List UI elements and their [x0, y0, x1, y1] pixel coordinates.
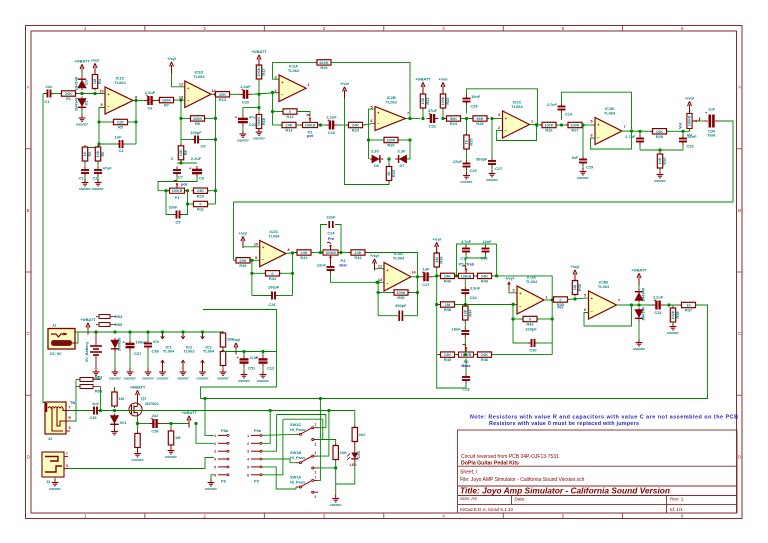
wire IC2C unity feedback: [496, 125, 536, 141]
wire to R8: [180, 140, 182, 145]
junction source node: [136, 422, 139, 425]
wire R29 right: [666, 130, 690, 132]
power +/syl at IC2D: [370, 253, 379, 271]
svg-text:TL064: TL064: [203, 349, 215, 354]
power +9/BATT at R17: [251, 49, 267, 67]
svg-text:47uF: 47uF: [428, 108, 438, 113]
svg-text:C31: C31: [654, 310, 662, 315]
svg-text:10: 10: [99, 90, 103, 94]
connector P8: [214, 428, 229, 483]
junction bottom mid: [464, 353, 467, 356]
wiper of P4 to C25m: [329, 255, 332, 263]
svg-text:2: 2: [498, 126, 500, 130]
op-amp IC3A body: [512, 275, 547, 315]
junction IC2D out: [416, 275, 419, 278]
wire R45-P6: [454, 354, 459, 356]
wire SW1A throw1 to bus: [318, 399, 320, 481]
power +9/BATT at D8: [631, 268, 647, 286]
wire R56 gnd: [137, 449, 139, 452]
svg-text:GNDREF: GNDREF: [124, 376, 136, 380]
wire R23 to pin6: [362, 123, 375, 125]
capacitor C10: [326, 115, 338, 136]
svg-text:GNDREF: GNDREF: [49, 487, 61, 491]
svg-text:+/vol: +/vol: [439, 77, 448, 82]
svg-text:C8: C8: [199, 176, 205, 181]
wire output jack gnd: [54, 477, 56, 481]
svg-text:R34: R34: [354, 255, 362, 260]
ground below R48: [667, 323, 679, 335]
junction IC3C pin9: [250, 259, 253, 262]
svg-text:C12: C12: [267, 366, 275, 371]
svg-text:GNDREF: GNDREF: [165, 455, 177, 459]
wire C26 feedback top: [467, 89, 538, 127]
wire C50 right: [404, 315, 418, 317]
resistor R45: [439, 352, 457, 362]
svg-text:100KB: 100KB: [305, 124, 316, 128]
wire R26-R27: [556, 124, 569, 126]
wire R48 gnd: [672, 322, 674, 326]
op-amp IC3C body: [254, 229, 290, 267]
junction R33 right: [291, 272, 294, 275]
ground below C12: [257, 371, 269, 383]
wire feedback to IC3A out: [497, 276, 553, 301]
svg-text:TL064: TL064: [511, 104, 523, 109]
svg-text:2: 2: [315, 471, 317, 475]
svg-text:KiCad E.D.A. kicad 5.1.10: KiCad E.D.A. kicad 5.1.10: [460, 507, 514, 512]
svg-text:R27: R27: [571, 128, 578, 133]
svg-text:C26: C26: [268, 302, 276, 307]
wire C9 right: [201, 139, 216, 141]
junction C27 node: [490, 117, 493, 120]
svg-text:C26: C26: [471, 104, 479, 109]
wire R40-P5: [454, 275, 459, 277]
junction R33 left: [250, 272, 253, 275]
junction R4 node: [93, 92, 96, 95]
resistor R4: [92, 73, 102, 91]
svg-text:P1: P1: [175, 195, 181, 200]
junction R9 right: [214, 117, 217, 120]
junction R20 left: [367, 138, 370, 141]
diode D12: [110, 414, 118, 428]
junction C19 node: [560, 123, 563, 126]
svg-text:2.2uF: 2.2uF: [240, 84, 251, 89]
wire IC3C out: [286, 253, 295, 254]
svg-text:GNDREF: GNDREF: [177, 376, 189, 380]
svg-text:TL062: TL062: [183, 349, 195, 354]
wire R13-P2: [296, 124, 302, 126]
wire C26f left: [252, 295, 270, 297]
wire IC3C fb right vertical: [292, 253, 294, 296]
svg-text:+/syl: +/syl: [167, 56, 176, 61]
wire to C51: [243, 352, 245, 357]
wire R22 down: [442, 110, 444, 119]
svg-text:GNDREF: GNDREF: [131, 458, 143, 462]
power +9/BATT at C36: [181, 410, 197, 428]
wire +/syl arrow stub: [235, 349, 237, 352]
wire R25v-C25: [466, 151, 468, 161]
wire IC1D out: [211, 93, 216, 95]
svg-text:pot: pot: [307, 134, 314, 138]
capacitor C25: [453, 159, 471, 170]
svg-text:2: 2: [203, 514, 206, 519]
junction IC3A out: [551, 298, 554, 301]
ground below D12: [111, 428, 118, 435]
svg-text:GNDREF: GNDREF: [156, 376, 168, 380]
capacitor C8: [189, 166, 202, 178]
wire mid rail to pin2: [454, 304, 517, 306]
wire pin12 to +/syl: [172, 71, 185, 87]
junction C12: [261, 350, 264, 353]
svg-text:Dist: Dist: [339, 264, 347, 268]
resistor R2: [82, 145, 92, 163]
wire nest2 top: [277, 415, 326, 428]
wire R9 left: [181, 117, 189, 119]
svg-text:Date:: Date:: [515, 497, 526, 502]
svg-text:5: 5: [562, 514, 565, 519]
ground below C28b: [577, 168, 589, 180]
svg-text:Pre: Pre: [328, 237, 334, 241]
wire to C27: [491, 119, 493, 159]
svg-text:R18: R18: [261, 117, 266, 125]
wire C36 to arrow: [161, 422, 189, 424]
svg-text:R24: R24: [450, 121, 458, 126]
wire IC2D fb right vertical: [417, 277, 419, 316]
junction R36 bottom: [573, 297, 576, 300]
svg-text:9V_Battery: 9V_Battery: [84, 341, 89, 362]
svg-text:R19: R19: [320, 65, 328, 70]
wire IC2B out: [406, 118, 421, 120]
switch SW1C: [290, 422, 318, 447]
wire jack to C39: [70, 410, 91, 412]
svg-text:9: 9: [100, 103, 102, 107]
diode D2: [73, 97, 88, 112]
resistor R12: [214, 92, 232, 102]
junction mid rail: [464, 303, 467, 306]
junction nest sw1b: [327, 409, 330, 412]
svg-text:+9/BATT: +9/BATT: [251, 49, 267, 54]
wire P5 to C34: [464, 279, 466, 287]
junction C38: [146, 330, 149, 333]
junction R11 left: [186, 202, 189, 205]
resistor R23: [347, 122, 365, 132]
wire pin10 to +/syl: [243, 242, 260, 247]
ground below IC1 power: [156, 369, 168, 381]
wire R10 right: [207, 190, 216, 192]
svg-text:2.7nF: 2.7nF: [625, 134, 636, 139]
svg-text:TL064: TL064: [163, 349, 175, 354]
capacitor C37: [123, 339, 148, 351]
svg-text:GNDREF: GNDREF: [205, 487, 217, 491]
wire R1 to IC1C: [77, 93, 105, 95]
wire +/syl to pin3: [509, 291, 517, 293]
potentiometer P3: [687, 111, 700, 131]
svg-text:R40: R40: [444, 279, 451, 284]
capacitor C9: [192, 136, 202, 144]
svg-text:R15: R15: [391, 169, 396, 177]
resistor R19: [315, 60, 333, 70]
wire C6-R7: [156, 100, 160, 102]
junction C9 right: [214, 138, 217, 141]
resistor R17: [256, 63, 266, 81]
resistor R51: [220, 350, 225, 368]
svg-text:R25: R25: [469, 138, 474, 146]
junction R30v top: [658, 148, 661, 151]
svg-text:4: 4: [442, 26, 445, 31]
junction R6 top: [96, 146, 99, 149]
wire SW1B common to P9 pin4: [262, 459, 296, 463]
wire C12 gnd: [262, 367, 264, 374]
resistor R33: [264, 271, 282, 281]
svg-text:1: 1: [315, 451, 317, 455]
capacitor C28b: [571, 155, 587, 166]
svg-text:4.7nF: 4.7nF: [461, 239, 472, 244]
wire sw1b top throw: [318, 411, 329, 457]
junction IC2C out: [535, 123, 538, 126]
svg-text:C34: C34: [470, 295, 478, 300]
resistor R35: [552, 297, 570, 307]
junction pin13: [179, 99, 182, 102]
junction bridge right: [495, 274, 498, 277]
resistor R40: [439, 273, 457, 283]
wire treble bridge top: [457, 244, 497, 276]
wire DC jack pins: [75, 332, 78, 343]
wire IC3B unity feedback: [584, 305, 632, 326]
capacitor C33: [482, 245, 490, 255]
wire C2 to gnd: [97, 176, 99, 181]
wire C27p to tone stack: [432, 275, 437, 278]
svg-text:P8: P8: [221, 478, 227, 483]
capacitor C2: [94, 165, 112, 176]
wire R34 feedback to IC2D out: [367, 253, 418, 277]
ground below IC3 power: [196, 369, 208, 381]
ground below C37: [124, 369, 136, 381]
svg-text:100pF: 100pF: [190, 130, 202, 135]
svg-text:R38: R38: [675, 311, 680, 319]
wire Q1 drain: [137, 396, 139, 403]
junction R42 right: [551, 317, 554, 320]
resistor R9: [189, 116, 207, 126]
svg-text:Rev: 1: Rev: 1: [670, 497, 684, 502]
wire C10-R23: [338, 124, 350, 126]
resistor R44: [463, 304, 473, 322]
svg-text:R11: R11: [197, 207, 205, 212]
wire bottom row left: [437, 354, 441, 356]
wire C23 down: [682, 145, 684, 150]
wire P6-R46: [474, 354, 479, 356]
svg-text:9V1: 9V1: [120, 420, 128, 425]
wire to R48: [669, 305, 673, 309]
svg-text:GNDREF: GNDREF: [196, 376, 208, 380]
svg-text:560pF: 560pF: [476, 156, 488, 161]
wire to C36: [138, 423, 150, 425]
wire to R15: [388, 159, 390, 166]
wire +9 rail: [75, 331, 223, 333]
ground below C27: [486, 170, 498, 182]
wire D7 to out rail: [407, 140, 411, 159]
capacitor C6: [144, 90, 156, 111]
resistor R25h: [471, 116, 489, 126]
resistor R57: [76, 375, 102, 382]
svg-text:C38: C38: [152, 349, 160, 354]
wire P8 pin6 gnd: [211, 475, 214, 481]
svg-text:T: T: [66, 452, 68, 456]
wire to R30v: [659, 150, 661, 155]
ground below C51: [238, 371, 250, 383]
resistor R58: [76, 385, 103, 394]
svg-text:D6: D6: [374, 163, 380, 168]
svg-text:10nF: 10nF: [471, 94, 481, 99]
wire IC1B unity feedback: [591, 131, 632, 149]
svg-text:GNDREF: GNDREF: [577, 176, 589, 180]
svg-text:File: Joyo AMP Simulator - Cal: File: Joyo AMP Simulator - California So…: [460, 477, 585, 483]
op-amp IC2C body: [498, 100, 533, 139]
ground below C38: [142, 369, 154, 381]
junction C26 node: [465, 117, 468, 120]
wire R53 gnd: [170, 447, 172, 450]
junction sw1b throw2: [334, 466, 337, 469]
svg-text:R9: R9: [195, 121, 201, 126]
svg-text:C30: C30: [529, 348, 536, 353]
resistor R10: [192, 188, 210, 198]
resistor R1: [60, 91, 78, 101]
resistor R26a: [540, 122, 558, 132]
wire to IC2C: [492, 118, 503, 120]
connector P9: [247, 428, 262, 483]
junction IC3B fb: [630, 303, 633, 306]
junction IC1D out: [214, 93, 217, 96]
capacitor C12: [256, 355, 268, 367]
wire to C12: [262, 352, 264, 357]
ground below R53: [165, 447, 177, 459]
wire to R49: [354, 411, 356, 429]
svg-text:R2: R2: [87, 151, 92, 157]
svg-text:47uF: 47uF: [103, 165, 113, 170]
wire R6 top: [97, 148, 99, 150]
wire R5 right: [127, 121, 136, 123]
svg-text:4: 4: [442, 514, 445, 519]
junction C7 C8 top: [179, 161, 182, 164]
svg-text:R20: R20: [387, 143, 394, 148]
svg-text:R1: R1: [66, 96, 72, 101]
junction R55 right: [416, 291, 419, 294]
wire pin13 feedback vertical: [180, 100, 182, 139]
svg-text:GNDREF: GNDREF: [142, 376, 154, 380]
svg-text:2N7002: 2N7002: [145, 401, 159, 406]
svg-text:C: C: [171, 156, 174, 161]
wire SW1C throw2 to R47: [318, 440, 336, 447]
svg-text:R8: R8: [183, 149, 188, 155]
op-amp IC2D body: [378, 251, 417, 291]
resistor R30h: [234, 258, 252, 268]
junction IC1C out: [134, 99, 137, 102]
resistor R32: [295, 250, 313, 260]
capacitor C27p: [420, 266, 432, 287]
junction C37: [128, 330, 131, 333]
capacitor C51: [237, 355, 260, 367]
capacitor C25m: [317, 262, 335, 273]
svg-text:2u2: 2u2: [92, 401, 100, 406]
junction diode clamp out: [637, 303, 640, 306]
wire pin2 fb vertical: [512, 305, 514, 320]
svg-text:2.2uF: 2.2uF: [191, 156, 202, 161]
svg-text:C27: C27: [495, 166, 502, 171]
wire C51 gnd: [243, 367, 245, 374]
wire SW1B throw2: [318, 467, 336, 469]
resistor R43: [476, 273, 494, 283]
junction power pin IC3: [201, 330, 204, 333]
transistor Q1 2N7002: [129, 396, 159, 417]
junction power pin IC2: [181, 330, 184, 333]
wire R51 gnd: [222, 367, 224, 371]
wire bridge right vertical: [496, 244, 498, 276]
svg-text:TN: TN: [70, 401, 75, 405]
ground below C3: [79, 179, 91, 191]
capacitor C26: [463, 94, 481, 105]
resistor R8: [178, 144, 188, 162]
wire R9 right: [206, 117, 216, 119]
wire P3 top: [689, 107, 691, 111]
junction C28 node: [581, 123, 584, 126]
junction bridge left: [455, 274, 458, 277]
wire to R24: [443, 118, 447, 120]
svg-text:C39: C39: [89, 415, 97, 420]
svg-text:GNDREF: GNDREF: [237, 138, 249, 142]
wire nest2 to P9 pin3: [262, 415, 277, 452]
svg-text:P9: P9: [254, 478, 260, 483]
junction R22 bottom: [441, 117, 444, 120]
svg-text:R10: R10: [197, 193, 204, 198]
svg-text:R55: R55: [397, 295, 405, 300]
junction R53 top: [169, 422, 172, 425]
wire IC1B out: [622, 130, 653, 132]
svg-text:1: 1: [84, 514, 87, 519]
svg-text:GNDREF: GNDREF: [486, 178, 498, 182]
junction P8 pin2: [194, 422, 197, 425]
wire to C29: [639, 131, 641, 136]
wire R42 left: [513, 318, 524, 320]
svg-text:12: 12: [179, 82, 183, 86]
junction R55 left: [377, 291, 380, 294]
wire mid row input vertical: [233, 202, 235, 260]
svg-text:+: +: [123, 340, 126, 345]
wire stack left vertical: [436, 276, 438, 355]
svg-text:6: 6: [584, 308, 586, 312]
svg-text:R55: R55: [115, 322, 123, 327]
svg-text:4: 4: [247, 458, 249, 462]
resistor R49: [352, 426, 357, 444]
capacitor C36: [149, 413, 161, 434]
wire nest3 to P9 pin6: [262, 419, 283, 475]
svg-text:2: 2: [214, 442, 216, 446]
resistor R27b: [566, 122, 584, 132]
junction D6 D7: [387, 157, 390, 160]
wire to R18: [258, 94, 260, 113]
junction tone stack input: [435, 274, 438, 277]
wire R32-P4: [311, 252, 323, 254]
junction P2 out: [319, 123, 322, 126]
svg-text:100KB: 100KB: [688, 115, 692, 126]
svg-text:3: 3: [274, 75, 276, 79]
svg-text:1N4148: 1N4148: [73, 97, 78, 111]
wire +/syl loop: [201, 310, 277, 399]
svg-text:22n: 22n: [46, 84, 53, 89]
power pins IC3: [201, 332, 215, 371]
svg-text:R22: R22: [445, 97, 450, 105]
op-amp IC1B body: [590, 106, 625, 145]
ground below battery: [90, 369, 102, 381]
junction R52 D12: [113, 409, 116, 412]
capacitor C35: [452, 326, 470, 337]
